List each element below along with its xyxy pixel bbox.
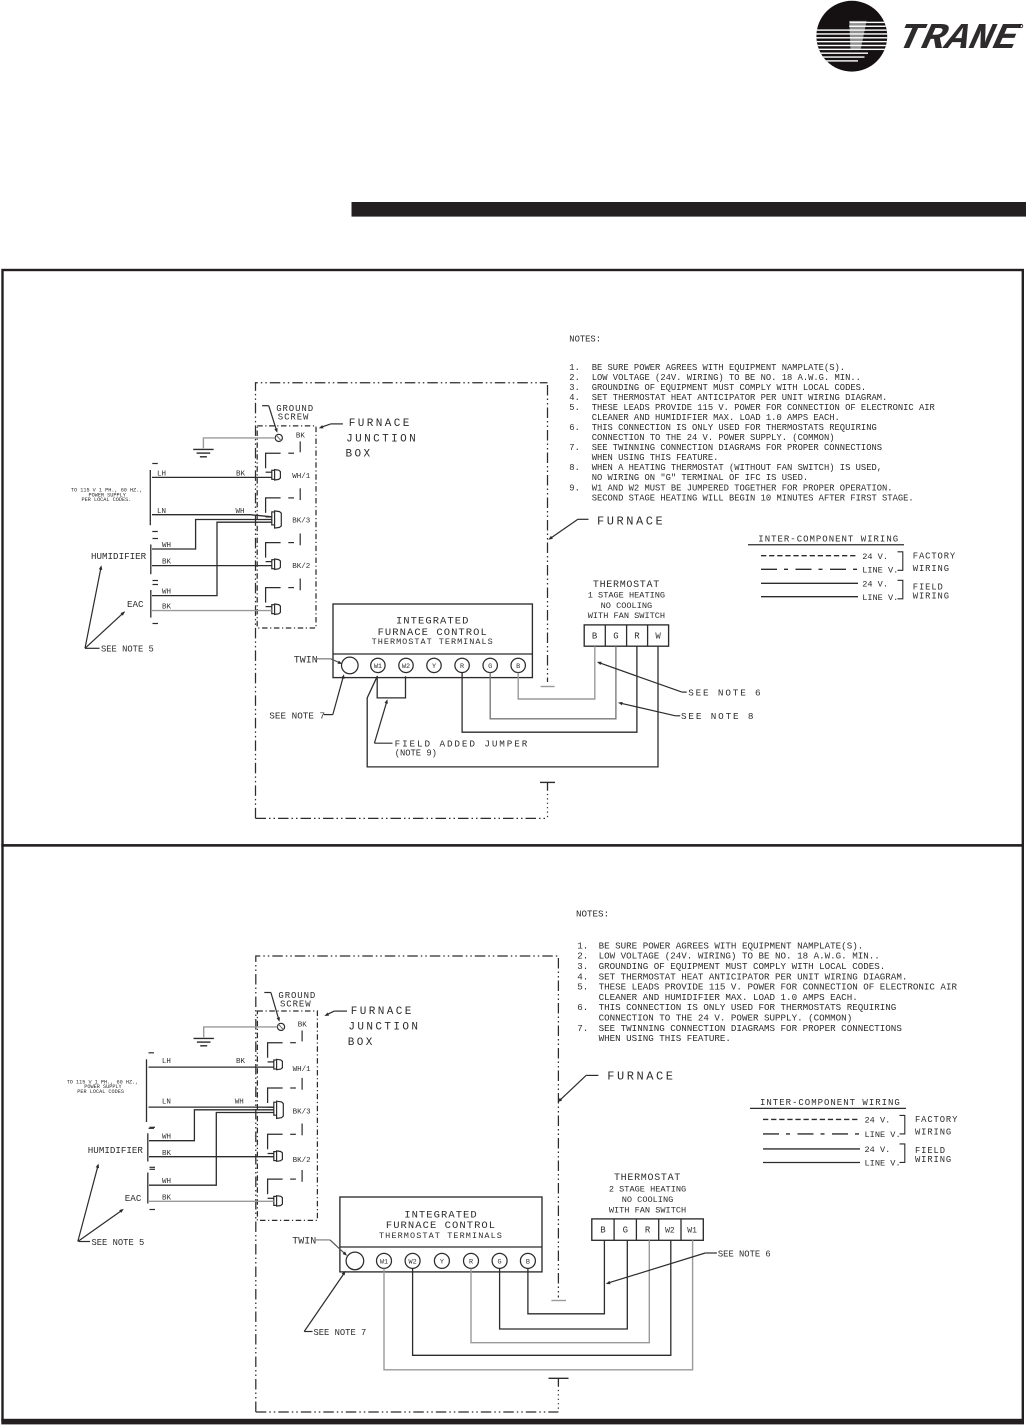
humidifier bracket (diagram 2) [148,1127,155,1167]
svg-text:BOX: BOX [346,449,373,461]
svg-text:G: G [488,663,492,671]
svg-text:R: R [469,1259,473,1267]
EAC BK wire (diagram 1) [152,610,272,612]
svg-text:2.: 2. [569,373,580,383]
svg-text:WITH FAN SWITCH: WITH FAN SWITCH [609,1206,686,1216]
svg-text:BK: BK [162,604,172,612]
integrated furnace control U1 (diagram 2) [340,1197,542,1272]
GROUND SCREW label (diagram 1) [262,404,314,433]
svg-text:B: B [600,1226,606,1236]
svg-text:NOTES:: NOTES: [576,909,609,920]
svg-text:WIRING: WIRING [913,591,950,601]
svg-text:BK: BK [236,1058,246,1066]
earth ground symbol (diagram 2) [194,1038,214,1045]
ground mark at furnace boundary (diagram 1) [540,782,555,789]
notes (diagram 2) [576,909,957,1045]
svg-text:7.: 7. [569,443,580,453]
svg-text:7.: 7. [577,1023,588,1034]
IFC terminal B (diagram 1) [511,658,525,672]
svg-text:LOW VOLTAGE (24V. WIRING) TO B: LOW VOLTAGE (24V. WIRING) TO BE NO. 18 A… [592,373,861,383]
EAC BK wire (diagram 2) [149,1200,274,1202]
ground screw (diagram 1) [275,434,282,441]
svg-text:HUMIDIFIER: HUMIDIFIER [88,1145,144,1156]
connector BK/3 (diagram 2) [268,1088,312,1135]
svg-text:9.: 9. [569,483,580,493]
SEE NOTE 7 label (diagram 1) [269,674,344,721]
svg-text:SCREW: SCREW [280,1000,312,1010]
SEE NOTE 8 label (diagram 1) [618,702,755,722]
SEE NOTE 7 label (diagram 2) [304,1271,366,1338]
SEE NOTE 5 label (diagram 2) [78,1164,144,1248]
svg-text:THIS CONNECTION IS ONLY USED F: THIS CONNECTION IS ONLY USED FOR THERMOS… [592,423,877,433]
svg-text:SEE NOTE 7: SEE NOTE 7 [269,710,325,721]
humidifier WH wire (diagram 1) [152,520,272,550]
svg-text:SCREW: SCREW [278,413,310,423]
EAC WH wire (diagram 2) [149,1113,274,1186]
TWIN label (diagram 1) [294,655,343,666]
furnace junction box (diagram 1) [257,426,316,628]
humidifier BK wire to BK/2 (diagram 1) [152,565,272,567]
svg-text:FURNACE: FURNACE [351,1006,414,1018]
svg-text:R: R [645,1226,651,1236]
IFC terminal W1 (diagram 1) [371,658,385,672]
title bar [352,202,1026,217]
TWIN label (diagram 2) [292,1236,347,1255]
SEE NOTE 6 label (diagram 1) [597,662,763,699]
svg-text:LN: LN [162,1099,171,1107]
svg-text:SEE NOTE 8: SEE NOTE 8 [681,711,755,722]
svg-text:WIRING: WIRING [913,564,950,574]
svg-text:24 V.: 24 V. [865,1145,891,1155]
BK lead label (diagram 2) [298,1021,308,1041]
svg-text:24 V.: 24 V. [865,1116,891,1126]
svg-text:24 V.: 24 V. [862,579,888,589]
svg-text:BK/3: BK/3 [292,518,311,526]
humidifier bracket (diagram 1) [151,539,158,581]
svg-text:BK/2: BK/2 [293,1157,311,1165]
svg-text:W1: W1 [687,1227,697,1236]
svg-text:WHEN USING THIS FEATURE.: WHEN USING THIS FEATURE. [599,1033,731,1044]
EAC WH wire (diagram 1) [152,522,272,595]
svg-text:JUNCTION: JUNCTION [348,1021,420,1033]
SEE NOTE 5 label (diagram 1) [85,565,154,654]
svg-text:Y: Y [432,663,436,671]
GROUND SCREW label (diagram 2) [264,991,316,1022]
wire IFC W1 to thermostat W1 (diagram 2) [384,1240,693,1370]
svg-text:W2: W2 [402,663,410,671]
wire LN (WH) to BK/3 (diagram 2) [149,1106,274,1108]
wire IFC R to thermostat R (diagram 1) [462,646,637,732]
wire LH (BK) to WH/1 (diagram 2) [149,1066,274,1068]
svg-text:CLEANER AND HUMIDIFIER MAX. LO: CLEANER AND HUMIDIFIER MAX. LOAD 1.0 AMP… [592,413,840,423]
svg-text:W1: W1 [380,1259,388,1267]
svg-text:BOX: BOX [348,1037,375,1049]
svg-text:WH: WH [162,1178,171,1186]
connector WH/1 (diagram 2) [268,1043,312,1090]
connector BK/2 (diagram 1) [266,543,311,591]
field added jumper W1-W2 (diagram 1) [377,676,405,698]
FURNACE label (diagram 1) [548,514,665,540]
svg-text:R: R [634,631,640,641]
svg-text:BK/3: BK/3 [293,1108,312,1116]
power supply note (diagram 2) [67,1079,139,1095]
connector BK/3 (diagram 1) [266,498,311,545]
IFC terminal G (diagram 1) [483,658,497,672]
svg-text:WHEN USING THIS FEATURE.: WHEN USING THIS FEATURE. [592,453,719,463]
svg-text:WH: WH [162,588,171,596]
TRANE logo [812,1,1023,72]
svg-text:HUMIDIFIER: HUMIDIFIER [91,551,147,562]
svg-text:6.: 6. [569,423,580,433]
svg-text:SEE NOTE 5: SEE NOTE 5 [101,645,154,655]
power supply note (diagram 1) [71,488,143,504]
wire IFC W1 to thermostat W (diagram 1) [367,646,658,767]
svg-text:SECOND STAGE HEATING WILL BEGI: SECOND STAGE HEATING WILL BEGIN 10 MINUT… [592,493,914,503]
svg-text:WIRING: WIRING [915,1128,952,1138]
svg-text:W: W [655,631,661,641]
furnace enclosure boundary (diagram 2) [256,956,566,1412]
svg-text:LINE V.: LINE V. [862,593,898,603]
diagram 2 border [3,845,1023,1420]
wire IFC B to thermostat B (diagram 2) [528,1240,605,1314]
wire IFC G to thermostat G (diagram 1) [490,646,616,719]
humidifier WH wire (diagram 2) [149,1110,274,1141]
FURNACE JUNCTION BOX label (diagram 1) [319,418,418,460]
diagram 1 border [3,270,1023,845]
svg-text:NO WIRING ON "G" TERMINAL OF I: NO WIRING ON "G" TERMINAL OF IFC IS USED… [592,473,808,483]
IFC terminal R (diagram 2) [464,1253,479,1268]
svg-text:W1 AND W2 MUST BE JUMPERED TOG: W1 AND W2 MUST BE JUMPERED TOGETHER FOR … [592,483,893,493]
svg-text:LINE V.: LINE V. [865,1159,901,1169]
FIELD ADDED JUMPER label (diagram 1) [374,699,529,759]
svg-text:W1: W1 [374,663,382,671]
svg-text:FACTORY: FACTORY [915,1115,958,1125]
IFC terminal R (diagram 1) [455,658,469,672]
svg-text:LH: LH [157,470,166,478]
svg-text:THERMOSTAT: THERMOSTAT [614,1173,681,1184]
svg-text:GROUNDING OF EQUIPMENT MUST CO: GROUNDING OF EQUIPMENT MUST COMPLY WITH … [592,383,867,393]
svg-text:4.: 4. [569,393,580,403]
svg-text:Y: Y [440,1259,444,1267]
svg-text:NO COOLING: NO COOLING [622,1195,674,1205]
furnace junction box (diagram 2) [257,1011,317,1220]
humidifier BK wire to BK/2 (diagram 2) [149,1156,274,1158]
svg-text:FURNACE: FURNACE [607,1069,675,1083]
inter-component wiring legend (diagram 2) [750,1098,958,1169]
wire LN (WH) to BK/3 (diagram 1) [152,515,272,517]
svg-text:R: R [460,663,464,671]
svg-text:INTER-COMPONENT WIRING: INTER-COMPONENT WIRING [758,534,899,544]
EAC bracket (diagram 2) [148,1169,155,1209]
svg-text:BK: BK [298,1021,308,1029]
svg-text:FACTORY: FACTORY [913,552,956,562]
svg-text:SEE TWINNING CONNECTION DIAGRA: SEE TWINNING CONNECTION DIAGRAMS FOR PRO… [592,443,882,453]
svg-text:BK: BK [236,470,246,478]
power supply bracket (diagram 2) [147,1053,155,1129]
svg-text:BE SURE POWER AGREES WITH EQUI: BE SURE POWER AGREES WITH EQUIPMENT NAMP… [592,363,845,373]
IFC terminal Y (diagram 2) [434,1253,449,1268]
svg-text:TWIN: TWIN [292,1236,316,1247]
svg-text:SET THERMOSTAT HEAT ANTICIPATO: SET THERMOSTAT HEAT ANTICIPATOR PER UNIT… [592,393,888,403]
svg-text:WHEN A HEATING THERMOSTAT (WIT: WHEN A HEATING THERMOSTAT (WITHOUT FAN S… [592,463,882,473]
svg-text:INTEGRATED: INTEGRATED [396,616,470,628]
svg-text:6.: 6. [577,1002,588,1013]
svg-text:TRANE: TRANE [894,19,1023,60]
svg-text:THERMOSTAT TERMINALS: THERMOSTAT TERMINALS [372,637,494,647]
IFC terminal W2 (diagram 1) [399,658,413,672]
connector WH/1 (diagram 1) [266,453,311,500]
svg-text:SEE NOTE 6: SEE NOTE 6 [688,687,762,698]
inter-component wiring legend (diagram 1) [748,534,956,602]
svg-text:BK: BK [296,432,306,440]
wire IFC B to thermostat B (diagram 1) [518,646,595,699]
IFC terminal TWIN (diagram 1) [342,657,359,674]
svg-text:LINE V.: LINE V. [865,1130,901,1140]
svg-text:8.: 8. [569,463,580,473]
svg-text:PER LOCAL CODES.: PER LOCAL CODES. [82,497,132,503]
svg-text:G: G [623,1226,628,1236]
svg-text:LH: LH [162,1058,171,1066]
SEE NOTE 6 label (diagram 2) [606,1249,771,1284]
svg-text:5.: 5. [569,403,580,413]
svg-text:THESE LEADS PROVIDE 115 V. POW: THESE LEADS PROVIDE 115 V. POWER FOR CON… [592,403,936,413]
svg-text:PER LOCAL CODES: PER LOCAL CODES [77,1089,124,1095]
svg-text:THERMOSTAT TERMINALS: THERMOSTAT TERMINALS [379,1231,503,1241]
thermostat (diagram 2) [592,1173,704,1240]
svg-text:G: G [613,631,618,641]
svg-text:WH: WH [162,1134,171,1142]
svg-text:FURNACE: FURNACE [349,418,412,430]
svg-text:SEE NOTE 7: SEE NOTE 7 [314,1328,367,1338]
earth ground symbol (diagram 1) [193,449,213,456]
ground wire from screw (diagram 2) [204,1027,278,1037]
svg-text:BK/2: BK/2 [292,563,310,571]
svg-text:FURNACE: FURNACE [597,514,665,528]
IFC terminal Y (diagram 1) [427,658,441,672]
svg-text:B: B [592,631,598,641]
svg-text:BK: BK [162,559,172,567]
svg-text:(NOTE 9): (NOTE 9) [395,749,437,759]
svg-text:WIRING: WIRING [915,1155,952,1165]
wire IFC G to thermostat G (diagram 2) [500,1240,628,1329]
svg-text:SEE NOTE 6: SEE NOTE 6 [718,1249,771,1259]
svg-text:WITH FAN SWITCH: WITH FAN SWITCH [588,611,665,621]
ground wire from screw (diagram 1) [203,438,275,448]
BK lead label (diagram 1) [296,432,306,452]
furnace enclosure boundary (diagram 1) [256,383,555,819]
svg-text:W2: W2 [665,1227,675,1236]
EAC bracket (diagram 1) [151,585,158,624]
svg-text:TWIN: TWIN [294,655,318,666]
thermostat (diagram 1) [584,580,668,646]
svg-text:EAC: EAC [125,1193,142,1204]
wire LH (BK) to WH/1 (diagram 1) [152,476,272,478]
svg-text:WH: WH [236,508,245,516]
ground screw (diagram 2) [277,1023,284,1030]
connector EAC BK (diagram 2) [268,1179,296,1206]
svg-text:WH: WH [235,1099,244,1107]
svg-text:24 V.: 24 V. [862,552,888,562]
svg-text:WH/1: WH/1 [292,473,311,481]
svg-text:2 STAGE HEATING: 2 STAGE HEATING [609,1185,686,1195]
svg-text:W2: W2 [409,1259,417,1267]
svg-text:JUNCTION: JUNCTION [346,433,418,445]
svg-text:1 STAGE HEATING: 1 STAGE HEATING [588,590,665,600]
svg-text:WH/1: WH/1 [293,1066,312,1074]
wire IFC W2 to thermostat W2 (diagram 2) [413,1240,671,1355]
IFC terminal B (diagram 2) [520,1253,535,1268]
svg-text:1.: 1. [569,363,580,373]
power supply bracket (diagram 1) [150,464,158,532]
svg-text:NOTES:: NOTES: [569,335,601,345]
svg-text:WH: WH [162,542,171,550]
IFC terminal G (diagram 2) [492,1253,507,1268]
bottom rule [1,1419,1024,1425]
svg-text:SEE NOTE 5: SEE NOTE 5 [92,1238,145,1248]
svg-text:B: B [526,1259,530,1267]
svg-text:G: G [498,1259,502,1267]
svg-text:LN: LN [157,508,166,516]
IFC terminal W2 (diagram 2) [405,1253,420,1268]
svg-text:THERMOSTAT: THERMOSTAT [593,580,660,591]
wire IFC R to thermostat R (diagram 2) [471,1240,649,1342]
FURNACE JUNCTION BOX label (diagram 2) [324,1006,420,1049]
svg-text:BK: BK [162,1194,172,1202]
svg-text:EAC: EAC [127,599,144,610]
svg-text:INTER-COMPONENT WIRING: INTER-COMPONENT WIRING [760,1098,901,1108]
svg-text:B: B [516,663,520,671]
FURNACE label (diagram 2) [558,1069,676,1102]
svg-text:3.: 3. [569,383,580,393]
connector BK/2 (diagram 2) [268,1134,311,1182]
IFC terminal TWIN (diagram 2) [346,1252,364,1270]
ground mark at furnace boundary (diagram 2) [549,1378,569,1385]
svg-text:NO COOLING: NO COOLING [601,601,653,611]
notes (diagram 1) [569,335,935,504]
svg-text:5.: 5. [577,982,588,993]
svg-text:BK: BK [162,1150,172,1158]
svg-text:CONNECTION TO THE 24 V. POWER: CONNECTION TO THE 24 V. POWER SUPPLY. (C… [592,433,835,443]
svg-text:LINE V.: LINE V. [862,565,898,575]
integrated furnace control U1 (diagram 1) [333,604,532,678]
IFC terminal W1 (diagram 2) [377,1253,392,1268]
connector EAC BK (diagram 1) [266,588,294,615]
